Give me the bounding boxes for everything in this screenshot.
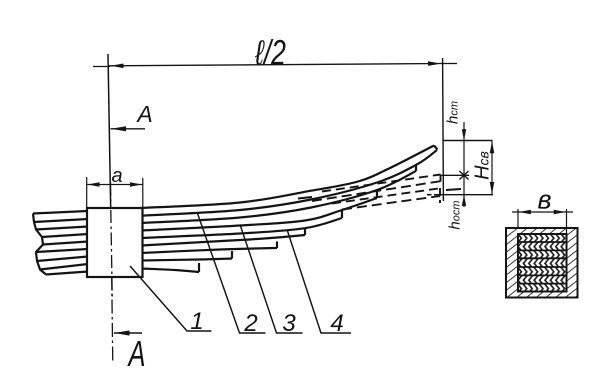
leaf 6 end step <box>276 241 278 248</box>
dashed flattened leaf 2 bottom edge <box>342 196 440 210</box>
svg-text:A: A <box>127 333 145 369</box>
extra dash fragments near leaf tips <box>298 197 312 199</box>
leader 2 with underline <box>197 212 266 333</box>
leaf 6 bottom edge <box>141 248 277 253</box>
leaf stack left segment line 6 <box>36 249 88 252</box>
leaf stack left segment line 7 <box>37 257 88 262</box>
leaf 3 end step <box>376 190 378 198</box>
leaf stack left segment line 2 <box>34 219 88 222</box>
leaf stack left segment line 3 <box>36 227 88 230</box>
dimension b line with arrows <box>512 211 573 213</box>
section centerline dash-dot lower part <box>111 182 113 364</box>
leaf stack bottom edge left of clamp <box>46 272 88 275</box>
svg-text:3: 3 <box>282 310 296 337</box>
cross-section clamp frame hatched <box>506 228 578 298</box>
leaf stack left segment line 8 <box>40 264 88 270</box>
dimension b extension lines <box>517 209 519 228</box>
svg-text:2: 2 <box>243 310 257 337</box>
leaf 7 end step <box>231 251 233 259</box>
label l/2 <box>254 33 286 72</box>
clamp block rectangle <box>87 208 143 277</box>
leader 3 with underline <box>240 225 303 334</box>
svg-text:ℓ/2: ℓ/2 <box>254 33 286 72</box>
dimension line h vertical at x464 <box>463 122 465 207</box>
dashed flattened leaf 2 top edge <box>332 188 440 203</box>
cross-section leaf pack hatched strips <box>518 234 567 242</box>
svg-text:A: A <box>135 101 152 127</box>
extension line top of tip (A) <box>443 140 493 142</box>
section line A-A vertical upper part <box>108 54 111 210</box>
dashed flattened leaf 1 end face <box>440 175 442 182</box>
leaf 5 end step <box>304 228 306 235</box>
extension line right vertical <box>442 58 445 201</box>
cross-section leaf separation lines <box>518 241 567 243</box>
leaf 3 bottom edge <box>141 198 377 231</box>
leaf 4 bottom edge <box>141 218 342 238</box>
leaf 1 tip end face <box>434 146 438 150</box>
dashed flattened leaf 1 top edge <box>322 175 441 192</box>
leaf 4 end step <box>341 210 343 218</box>
centerline through clamp overlay <box>111 210 113 300</box>
leaf stack jagged left end <box>33 214 46 275</box>
svg-text:1: 1 <box>190 308 203 335</box>
dimension line H_sv at x492 <box>491 141 493 195</box>
leader 4 with underline <box>287 230 351 334</box>
dashed flattened leaf 2 end face <box>439 188 441 203</box>
leader 1 with underline <box>130 266 212 331</box>
leaf stack left segment line 5 <box>43 242 88 245</box>
extension line bottom (C) <box>434 194 493 196</box>
leaf stack left segment line 4 <box>42 234 88 237</box>
leaf 1 (main leaf) top edge <box>141 146 434 209</box>
leaf 1 bottom edge <box>141 150 437 216</box>
svg-text:в: в <box>537 185 551 215</box>
dashed flattened leaf 1 bottom edge <box>312 181 441 201</box>
leaf 8 end step <box>198 263 200 272</box>
section arrow A top <box>111 128 146 130</box>
svg-text:a: a <box>111 165 122 187</box>
svg-text:Hсв: Hсв <box>472 151 494 180</box>
leaf 5 bottom edge <box>141 235 305 246</box>
leaf 7 bottom edge <box>141 259 232 261</box>
dimension a line with arrows <box>87 184 143 186</box>
svg-text:4: 4 <box>330 310 343 337</box>
leaf stack left segment line 1 <box>33 211 88 214</box>
leaf 8 bottom edge <box>141 269 199 273</box>
leaf 2 bottom edge <box>141 171 416 223</box>
dimension line l/2 with arrows <box>93 66 110 68</box>
dimension a extension lines <box>86 177 88 207</box>
leaf 2 end step <box>415 165 417 171</box>
section arrow A bottom <box>114 332 142 334</box>
extension line middle (B) <box>442 174 470 176</box>
